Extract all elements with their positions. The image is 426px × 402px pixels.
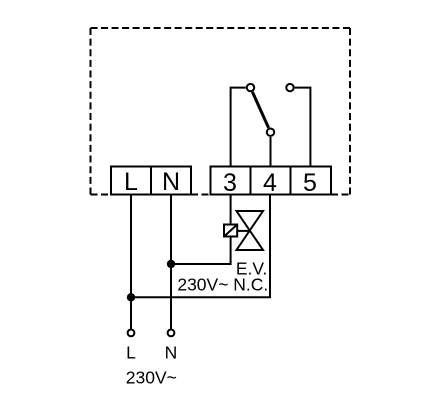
enclosure dashed box top edge <box>91 27 351 29</box>
wire terminal L down to supply <box>130 195 132 330</box>
terminal block L-N outline <box>111 167 191 195</box>
svg-text:230V~: 230V~ <box>126 368 177 388</box>
switch blade <box>252 92 268 128</box>
supply terminal N open circle <box>168 330 175 337</box>
svg-text:L: L <box>126 343 136 363</box>
wire terminal 4 down and across to L-wire junction <box>131 195 270 298</box>
solenoid coil square <box>224 225 237 237</box>
switch pole circle <box>267 129 274 136</box>
junction dot on L wire <box>127 293 135 301</box>
wire terminal 3 down to solenoid coil <box>230 195 232 225</box>
junction dot on N wire <box>167 260 175 268</box>
enclosure dashed box left edge <box>90 28 92 195</box>
valve body bowtie <box>237 211 264 250</box>
svg-text:L: L <box>124 168 138 196</box>
terminal block L-N divider <box>150 167 152 195</box>
solenoid coil diagonal <box>224 225 237 237</box>
svg-text:3: 3 <box>223 169 237 197</box>
svg-text:N: N <box>162 168 180 196</box>
switch contact circle terminal 5 side <box>286 84 293 91</box>
wire solenoid coil to N-wire junction <box>171 237 231 265</box>
switch contact circle terminal 3 side <box>247 84 254 91</box>
link coil to valve centre <box>237 230 250 232</box>
enclosure dashed box bottom edge middle segment <box>191 194 211 196</box>
wire terminal N down to supply <box>170 195 172 330</box>
terminal block 3-4-5 outline <box>211 167 332 195</box>
wire terminal 5 up to switch contact <box>295 88 311 167</box>
terminal block divider 3-4 <box>250 167 252 195</box>
wire terminal 3 up to switch contact <box>231 88 246 167</box>
supply terminal L open circle <box>128 330 135 337</box>
svg-text:5: 5 <box>303 169 317 197</box>
terminal block divider 4-5 <box>290 167 292 195</box>
svg-text:N: N <box>165 343 178 363</box>
wire switch pole down to terminal 4 <box>270 137 272 167</box>
enclosure dashed box bottom edge right segment <box>331 194 350 196</box>
svg-text:4: 4 <box>263 169 277 197</box>
svg-text:230V~ N.C.: 230V~ N.C. <box>177 275 268 295</box>
enclosure dashed box bottom edge left segment <box>91 194 112 196</box>
enclosure dashed box right edge <box>349 28 351 195</box>
